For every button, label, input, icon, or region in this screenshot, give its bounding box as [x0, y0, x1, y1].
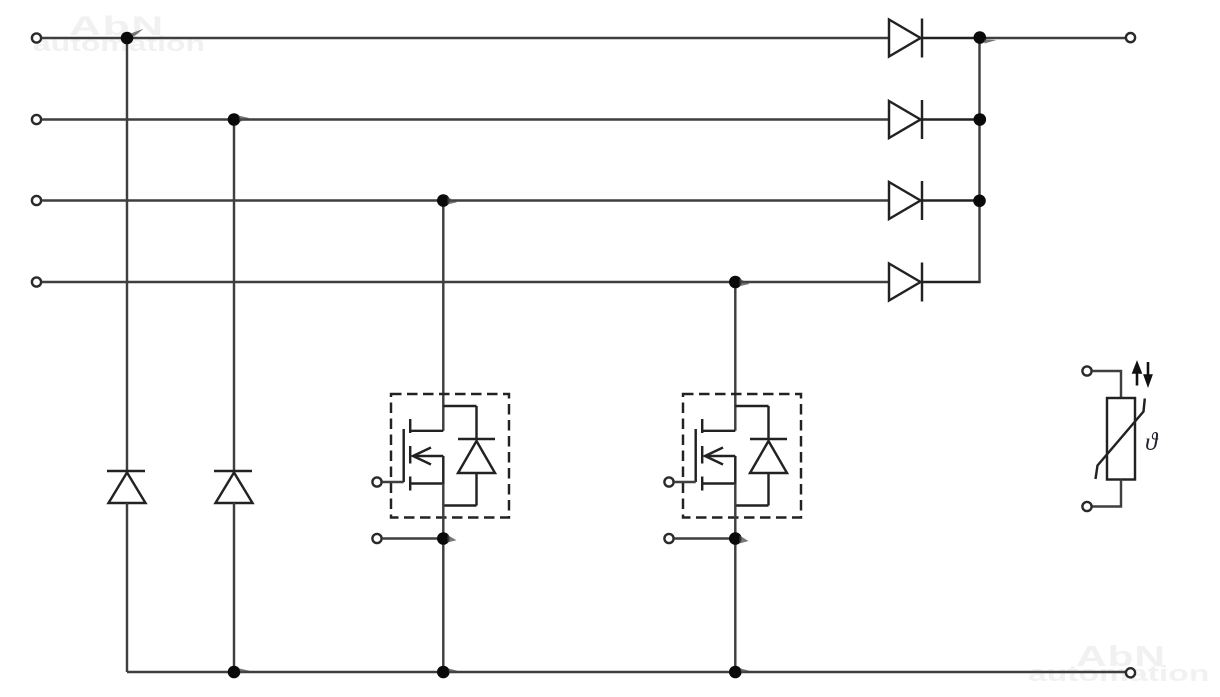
terminal S2 sense circle — [664, 534, 673, 543]
wire V2 lower — [233, 503, 235, 672]
wire thermistor top lead — [1092, 371, 1121, 398]
transistor Q1 — [404, 419, 444, 491]
terminal DC+ output circle — [1126, 33, 1135, 42]
thermistor RT1 diagonal — [1096, 399, 1145, 480]
wire G1 gate lead — [382, 481, 404, 483]
wire line4 left — [42, 281, 889, 283]
wire line1 left — [42, 37, 889, 39]
node Q1 source junction — [437, 532, 450, 545]
wire G2 gate lead — [674, 481, 696, 483]
wire thermistor bottom lead — [1092, 480, 1121, 507]
MOSFET module M2 dashed box — [683, 394, 801, 518]
wire V4 drain drop from line4 — [734, 282, 736, 431]
wire line2 left — [42, 118, 889, 120]
node line4-V4 junction — [729, 276, 742, 289]
node rail-V4 junction — [729, 666, 742, 679]
terminal AC1 input circle — [32, 33, 41, 42]
arrow down (temperature) — [1144, 362, 1152, 387]
watermark top-left automation — [33, 34, 205, 55]
terminal DC- output circle — [1126, 668, 1135, 677]
diode D3 — [889, 181, 980, 220]
terminal AC4 input circle — [32, 277, 41, 286]
diode D5 — [107, 471, 146, 503]
diode D2 — [889, 100, 980, 139]
node rail-V2 junction — [228, 666, 241, 679]
wire S2 sense lead — [674, 537, 735, 539]
terminal AC2 input circle — [32, 115, 41, 124]
node Q2 source junction — [729, 532, 742, 545]
transistor Q2 — [696, 419, 736, 491]
terminal thermistor top circle — [1082, 366, 1091, 375]
terminal S1 sense circle — [372, 534, 381, 543]
wire DC+ bus vertical — [978, 38, 980, 282]
terminal thermistor bottom circle — [1082, 502, 1091, 511]
MOSFET module M1 dashed box — [391, 394, 509, 518]
terminal AC3 input circle — [32, 196, 41, 205]
diode D1 — [889, 19, 980, 58]
thermistor RT1 body — [1107, 398, 1135, 480]
watermark bottom-right AbN — [1076, 643, 1166, 672]
node line1-V1 junction — [121, 32, 134, 45]
diode D6 — [214, 471, 253, 503]
node line3-V3 junction — [437, 194, 450, 207]
wire V1 lower — [126, 503, 128, 672]
node bus-line3 junction — [973, 195, 986, 208]
diode D4 — [889, 263, 981, 302]
watermark top-left AbN — [69, 13, 165, 40]
wire Q2 source down — [734, 484, 736, 673]
wire S1 sense lead — [382, 537, 443, 539]
label theta — [1145, 429, 1157, 457]
node line2-V2 junction — [228, 113, 241, 126]
watermark bottom-right automation — [1028, 663, 1209, 685]
wire line3 left — [42, 199, 889, 201]
wire V2 drop from line2 — [233, 120, 235, 472]
wire V3 drain drop from line3 — [442, 201, 444, 431]
body diode of Q2 — [735, 406, 787, 506]
body diode of Q1 — [443, 406, 495, 506]
terminal G1 gate circle — [372, 477, 381, 486]
dot smudges (scan artifacts) — [130, 29, 997, 673]
wire DC+ output — [980, 37, 1126, 39]
wire Q1 source down — [442, 484, 444, 673]
node bus-line2 junction — [974, 113, 987, 126]
wire V1 drop from line1 — [126, 38, 128, 471]
node bus-line1 junction — [974, 31, 987, 44]
terminal G2 gate circle — [664, 477, 673, 486]
arrow up (temperature) — [1132, 362, 1141, 386]
wire bottom DC- rail — [127, 671, 1126, 673]
node rail-V3 junction — [437, 666, 450, 679]
